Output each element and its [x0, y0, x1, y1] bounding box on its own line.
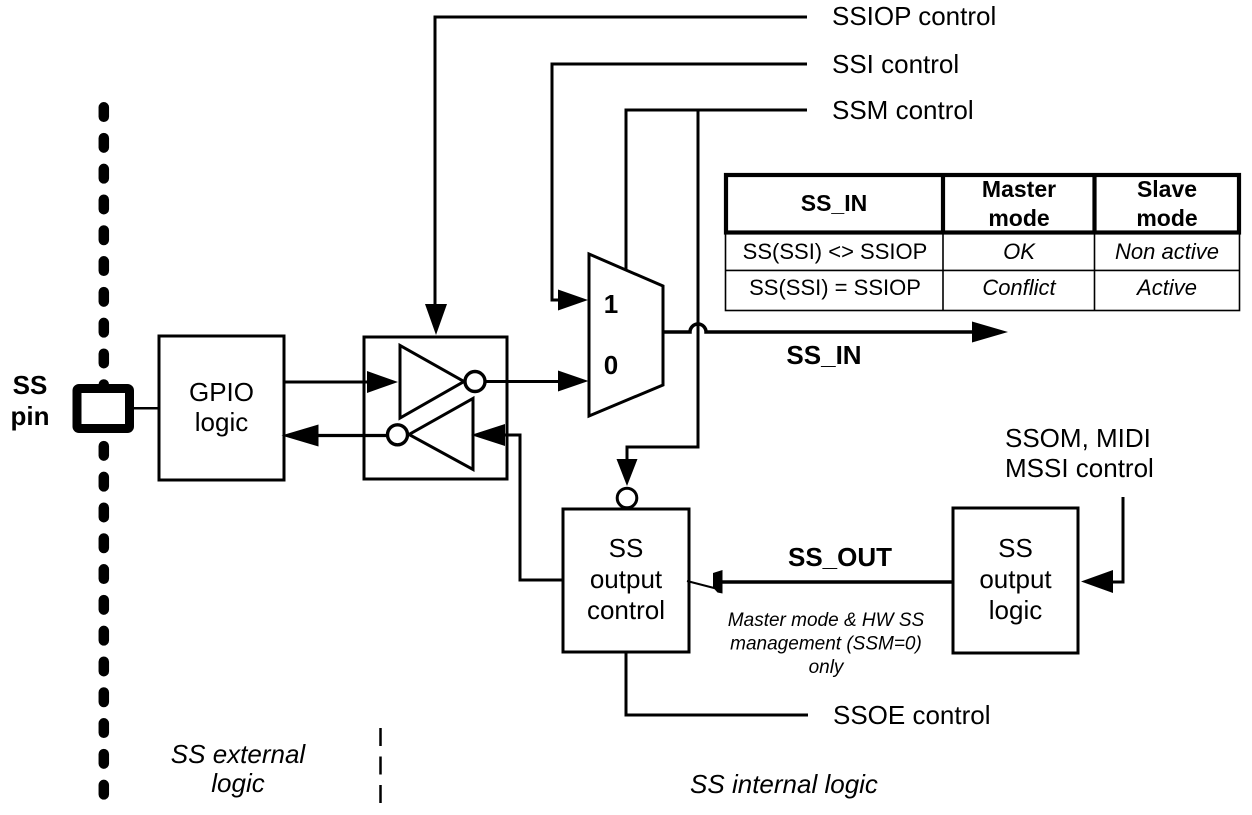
SS output logic box [953, 508, 1078, 653]
svg-text:SSOM, MIDI: SSOM, MIDI [1005, 423, 1151, 453]
svg-text:GPIO: GPIO [189, 377, 254, 407]
svg-text:SS: SS [609, 533, 644, 563]
wire SS output control to output buffer [504, 435, 563, 580]
svg-text:pin: pin [11, 401, 50, 431]
svg-text:OK: OK [1003, 239, 1036, 264]
svg-text:Active: Active [1135, 275, 1197, 300]
wire SS_IN (mux output, hops over vertical wire) [663, 324, 973, 332]
arrowhead SS_IN [972, 322, 1008, 343]
svg-text:SSIOP control: SSIOP control [832, 1, 996, 31]
svg-text:mode: mode [1136, 205, 1197, 231]
svg-text:SS: SS [998, 533, 1033, 563]
svg-text:SS_OUT: SS_OUT [788, 542, 892, 572]
table header box (thick) [726, 175, 1239, 233]
wire pin to GPIO logic [134, 407, 159, 410]
wire SSOM/MSSI control into SS output logic [1113, 497, 1123, 582]
svg-text:logic: logic [195, 407, 248, 437]
svg-text:SSOE control: SSOE control [833, 700, 991, 730]
GPIO logic box [159, 336, 284, 480]
svg-text:mode: mode [988, 205, 1049, 231]
svg-text:SS_IN: SS_IN [786, 340, 861, 370]
svg-text:1: 1 [604, 289, 618, 319]
svg-text:SS internal logic: SS internal logic [690, 769, 878, 799]
wire SSM branch down to SS output control bubble [627, 110, 698, 461]
buffer box [364, 337, 507, 479]
arrowhead into buffer box top [425, 304, 447, 335]
svg-text:SS(SSI) = SSIOP: SS(SSI) = SSIOP [749, 275, 921, 300]
input buffer (triangle) [400, 346, 464, 419]
wire SSM control (horizontal + drop to mux select) [626, 110, 807, 270]
svg-text:Master mode & HW SS: Master mode & HW SS [728, 610, 925, 631]
svg-text:Conflict: Conflict [982, 275, 1056, 300]
svg-text:output: output [979, 564, 1052, 594]
svg-text:management (SSM=0): management (SSM=0) [730, 634, 922, 655]
output buffer (triangle) [409, 399, 473, 470]
svg-text:output: output [590, 564, 663, 594]
arrowhead into input buffer [367, 371, 398, 393]
svg-text:SS external: SS external [171, 739, 307, 769]
svg-text:SS: SS [13, 370, 48, 400]
wire SSOE control [626, 652, 808, 715]
rotated arrowhead into SS output control [687, 581, 716, 589]
SS pin pad [77, 389, 130, 429]
svg-text:logic: logic [211, 768, 264, 798]
wire SSIOP control (horizontal + drop to buffer box) [435, 17, 807, 306]
svg-text:only: only [809, 657, 845, 678]
svg-text:SS_IN: SS_IN [801, 190, 867, 216]
mux (trapezoid) [589, 254, 663, 416]
svg-text:0: 0 [604, 350, 618, 380]
table: SS_IN truth table [726, 175, 1240, 311]
bubble (inverter circle) on SS output control top [617, 488, 637, 508]
wire input buffer to mux input 0 [487, 380, 560, 383]
svg-text:Non active: Non active [1115, 239, 1219, 264]
svg-text:MSSI control: MSSI control [1005, 453, 1154, 483]
svg-text:Master: Master [982, 176, 1056, 202]
svg-text:SS(SSI) <> SSIOP: SS(SSI) <> SSIOP [743, 239, 928, 264]
separator dashed line (internal/external) [379, 728, 382, 803]
SS output control box [563, 509, 689, 652]
wire SS_OUT (SS output logic to SS output control) [722, 580, 953, 584]
svg-text:control: control [587, 595, 665, 625]
arrowhead into SS output logic [1081, 570, 1113, 593]
svg-text:SSM control: SSM control [832, 95, 974, 125]
arrowhead into bubble [617, 459, 638, 486]
table body grid [726, 175, 1240, 311]
arrowhead into GPIO box [282, 425, 319, 447]
input buffer bubble [465, 372, 485, 392]
arrowhead into mux input 1 [558, 290, 588, 311]
svg-text:Slave: Slave [1137, 176, 1197, 202]
svg-text:logic: logic [989, 595, 1042, 625]
arrowhead into output buffer [471, 424, 505, 446]
arrowhead into mux input 0 [558, 371, 589, 392]
wire GPIO to input buffer [284, 381, 368, 384]
wire SSI control (horizontal + drop to mux input 1) [552, 64, 807, 300]
wire output buffer to GPIO [317, 434, 387, 437]
svg-text:SSI control: SSI control [832, 49, 959, 79]
boundary dashed line (SS pin boundary) [99, 107, 110, 794]
output buffer bubble [388, 425, 408, 445]
